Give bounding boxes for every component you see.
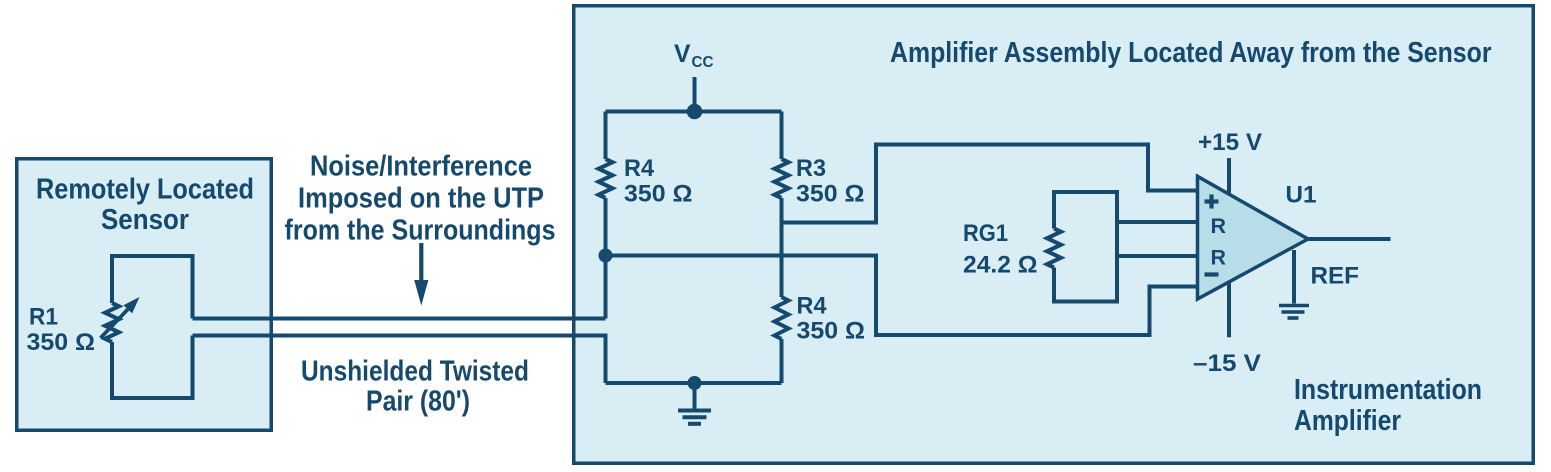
resistor RG1	[1047, 229, 1061, 268]
Vcc label	[674, 40, 714, 71]
noise arrow	[414, 243, 428, 306]
wire: bridge right lower	[780, 339, 784, 383]
svg-text:Unshielded Twisted: Unshielded Twisted	[301, 356, 529, 388]
svg-text:U1: U1	[1286, 182, 1317, 209]
svg-text:+15 V: +15 V	[1198, 129, 1263, 156]
resistor R4 bottom	[775, 297, 789, 339]
REF wire	[1292, 250, 1296, 304]
node: bridge mid-left junction	[599, 249, 613, 263]
svg-text:R4: R4	[624, 155, 654, 182]
wire: bridge bottom	[606, 381, 782, 385]
wire: RG lower	[1117, 254, 1198, 258]
Vcc stem wire	[693, 77, 697, 112]
wire: bridge left upper	[604, 112, 608, 160]
R1 value label	[27, 304, 96, 357]
R4 left label	[624, 155, 693, 208]
svg-text:350 Ω: 350 Ω	[624, 181, 693, 208]
R1 variable arrow	[101, 297, 140, 338]
op-amp minus pin symbol	[1205, 272, 1219, 276]
svg-text:350 Ω: 350 Ω	[27, 329, 96, 356]
wire: RG upper	[1117, 220, 1198, 224]
wire: output	[1308, 237, 1391, 241]
op-amp U1	[1198, 176, 1309, 299]
ground (bridge)	[678, 383, 711, 424]
+15V supply wire	[1227, 158, 1231, 194]
svg-text:V: V	[674, 40, 691, 68]
wire: twisted pair bottom	[193, 336, 606, 384]
svg-text:R4: R4	[797, 293, 827, 320]
svg-text:350 Ω: 350 Ω	[797, 318, 866, 345]
R4 bottom label	[797, 293, 866, 345]
svg-text:Sensor: Sensor	[101, 204, 189, 236]
RG1 loop: top/right/bottom	[1054, 192, 1117, 302]
sensor box	[17, 159, 272, 431]
node: ground junction	[688, 376, 702, 390]
resistor R1	[105, 303, 119, 342]
svg-text:from the Surroundings: from the Surroundings	[285, 215, 556, 247]
node: bridge top junction	[687, 104, 703, 120]
svg-text:R3: R3	[796, 155, 826, 182]
svg-text:R: R	[1211, 214, 1227, 238]
instrumentation amplifier label	[1294, 374, 1482, 437]
svg-text:Amplifier: Amplifier	[1294, 405, 1401, 437]
svg-text:R1: R1	[29, 304, 58, 331]
ground (REF)	[1279, 306, 1309, 319]
svg-text:Instrumentation: Instrumentation	[1294, 374, 1482, 406]
svg-text:Amplifier Assembly Located Awa: Amplifier Assembly Located Away from the…	[890, 37, 1492, 69]
RG1 label	[963, 220, 1038, 279]
sensor loop wire upper	[112, 256, 193, 319]
op-amp plus pin symbol	[1205, 195, 1219, 209]
wire: bridge right middle	[780, 198, 784, 297]
svg-text:CC: CC	[692, 54, 714, 71]
noise annotation text	[285, 151, 556, 247]
amplifier assembly box	[574, 6, 1534, 464]
wire: bridge top	[606, 110, 782, 114]
wire: minus signal path	[606, 256, 1198, 336]
svg-text:Remotely Located: Remotely Located	[36, 174, 254, 206]
wire: plus signal path	[782, 145, 1198, 223]
wire: twisted pair top	[193, 317, 606, 321]
svg-text:R: R	[1211, 246, 1227, 270]
sensor loop wire lower	[112, 336, 193, 399]
wire: bridge left lower	[604, 198, 608, 319]
sensor box title	[36, 174, 254, 237]
svg-text:Imposed on the UTP: Imposed on the UTP	[298, 183, 544, 215]
svg-text:24.2 Ω: 24.2 Ω	[963, 252, 1038, 279]
svg-text:Pair (80'): Pair (80')	[366, 386, 470, 418]
resistor R4 left	[599, 159, 613, 198]
R3 label	[796, 155, 865, 208]
svg-text:REF: REF	[1311, 263, 1360, 290]
svg-text:Noise/Interference: Noise/Interference	[310, 151, 532, 183]
op-amp R pin labels	[1211, 214, 1227, 270]
UTP label	[301, 356, 529, 418]
svg-text:350 Ω: 350 Ω	[796, 181, 865, 208]
-15V supply wire	[1227, 282, 1231, 338]
svg-text:RG1: RG1	[963, 220, 1008, 247]
svg-text:–15 V: –15 V	[1193, 350, 1262, 377]
resistor R3	[775, 159, 789, 198]
wire: bridge right upper	[780, 112, 784, 160]
